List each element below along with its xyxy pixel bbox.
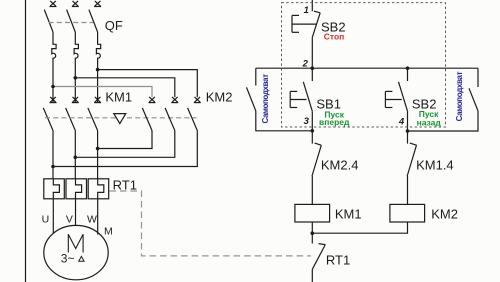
stop button SB2 (NC) bbox=[292, 11, 320, 68]
node: SB2-back tap dot bbox=[406, 66, 410, 70]
start button SB1 forward (NO) bbox=[290, 68, 312, 131]
labels: power circuit bbox=[42, 18, 233, 265]
thermal contact RT1 (NC) bbox=[312, 233, 325, 282]
terminal X L2 bbox=[72, 1, 79, 7]
RT1 mechanical link to control (dashed) bbox=[110, 191, 311, 256]
wire: KM2 pole 3 output to L1 line bbox=[53, 131, 197, 167]
svg-text:2: 2 bbox=[302, 59, 309, 70]
push button station dashed box bbox=[282, 3, 446, 127]
wire: node2 horizontal bus bbox=[256, 67, 478, 69]
wire: KM2 coil bottom to node bbox=[312, 222, 407, 233]
link triangle marker bbox=[114, 114, 126, 124]
frame border line bbox=[25, 0, 27, 282]
self-latch contact left (KM1 aux) bbox=[247, 68, 313, 131]
terminal X L3 bbox=[94, 1, 101, 7]
svg-text:KM1: KM1 bbox=[335, 206, 362, 221]
node 3 junction dot bbox=[311, 129, 315, 133]
node: L3/KM2 feed junction bbox=[96, 68, 100, 72]
svg-text:Стоп: Стоп bbox=[324, 31, 345, 41]
svg-text:U: U bbox=[42, 213, 50, 225]
svg-text:KM2.4: KM2.4 bbox=[321, 158, 359, 173]
delta symbol bbox=[79, 256, 84, 261]
svg-text:RT1: RT1 bbox=[113, 177, 137, 192]
motor M letter bbox=[68, 234, 83, 252]
circuit breaker QF pole 2 bbox=[67, 10, 79, 102]
coil KM2 bbox=[390, 204, 425, 222]
thermal relay RT1 heater 1 bbox=[44, 179, 65, 199]
interlock contact KM1.4 (NC) bbox=[407, 131, 416, 205]
KM1/KM2 mechanical link (dashed) bbox=[45, 117, 197, 119]
node: L1/KM2 feed junction bbox=[51, 85, 55, 89]
contactor KM1 pole 2 contact bbox=[66, 97, 79, 179]
svg-text:3~: 3~ bbox=[61, 251, 75, 265]
wire: KM2 pole 2 output to L2 line bbox=[75, 131, 175, 158]
terminal X L1 bbox=[50, 1, 57, 7]
circuit breaker QF pole 1 bbox=[44, 10, 56, 102]
thermal relay RT1 heater 3 bbox=[88, 179, 109, 199]
svg-text:Самоподхват: Самоподхват bbox=[455, 71, 464, 121]
contactor KM1 pole 1 contact bbox=[43, 97, 56, 179]
svg-text:V: V bbox=[66, 213, 73, 225]
wire: motor lead V bbox=[75, 199, 77, 226]
wire: control supply from top bbox=[311, 0, 313, 11]
wire: motor lead U bbox=[52, 199, 54, 234]
wire: L2 feed to KM2 pole 2 bbox=[75, 78, 175, 97]
svg-text:KM1: KM1 bbox=[105, 89, 132, 104]
node: KM2 out 1 junction bbox=[96, 147, 100, 151]
wire: L1 feed to KM2 pole 1 (grey) bbox=[53, 87, 152, 98]
svg-text:1: 1 bbox=[304, 5, 309, 16]
svg-text:KM2: KM2 bbox=[431, 206, 458, 221]
self-latch contact right (KM2 aux) bbox=[408, 68, 479, 131]
svg-text:Самоподхват: Самоподхват bbox=[261, 74, 270, 124]
svg-text:KM2: KM2 bbox=[206, 89, 233, 104]
interlock contact KM2.4 (NC) bbox=[312, 131, 321, 205]
svg-text:RT1: RT1 bbox=[326, 253, 350, 268]
svg-text:W: W bbox=[87, 213, 97, 225]
svg-text:QF: QF bbox=[105, 18, 123, 33]
contactor KM2 pole 3 contact bbox=[188, 97, 201, 131]
circuit breaker QF pole 3 bbox=[89, 10, 101, 102]
svg-text:KM1.4: KM1.4 bbox=[416, 158, 454, 173]
labels: control circuit bbox=[261, 5, 464, 268]
QF mechanical link (dashed) bbox=[49, 22, 94, 24]
svg-text:вперед: вперед bbox=[319, 117, 350, 127]
node 4 junction dot bbox=[406, 129, 410, 133]
thermal relay RT1 heater 2 bbox=[66, 179, 87, 199]
svg-text:M: M bbox=[104, 225, 113, 237]
wire: KM1 coil bottom bbox=[311, 222, 313, 233]
motor M circle bbox=[44, 225, 108, 279]
node: KM2 out 2 junction bbox=[74, 156, 78, 160]
contactor KM1 pole 3 contact bbox=[88, 97, 101, 179]
wire: KM2 pole 1 output to L3 line bbox=[98, 131, 152, 149]
node: KM2 out 3 junction bbox=[51, 165, 55, 169]
svg-text:3: 3 bbox=[304, 116, 310, 127]
svg-text:4: 4 bbox=[398, 116, 405, 127]
node: coils common junction bbox=[311, 231, 315, 235]
coil KM1 bbox=[295, 204, 330, 222]
contactor KM2 pole 2 contact bbox=[165, 97, 178, 131]
contactor KM2 pole 1 contact bbox=[142, 97, 155, 131]
svg-text:назад: назад bbox=[417, 117, 442, 127]
wire: L3 feed to KM2 pole 3 bbox=[98, 70, 198, 98]
node 2 junction dot bbox=[311, 66, 315, 70]
start button SB2 backward (NO) bbox=[385, 68, 407, 131]
wire: motor lead W bbox=[97, 199, 99, 235]
node: L2/KM2 feed junction bbox=[74, 76, 78, 80]
